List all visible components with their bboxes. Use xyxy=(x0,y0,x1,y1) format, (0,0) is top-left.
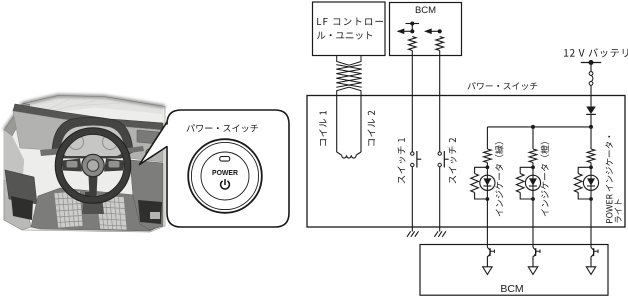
resistor: series, branch indicator LED (amber) DS2 xyxy=(529,149,537,163)
wire: switch SW1 to ground xyxy=(411,167,413,232)
label: LF control unit line1 xyxy=(317,18,383,26)
power symbol icon xyxy=(221,179,230,189)
label: 12 V battery xyxy=(564,48,628,57)
power button indicator pill xyxy=(220,157,230,162)
power switch box outline xyxy=(307,96,625,228)
svg-text:BCM: BCM xyxy=(500,283,523,295)
LED POWER indicator light DS3 xyxy=(590,167,592,199)
switch SW2 contact circles xyxy=(438,152,441,155)
LF control unit box U1 xyxy=(313,2,386,56)
transistor Q1 (BCM output driver) xyxy=(483,247,495,274)
label: switch 2 xyxy=(449,138,457,183)
spring / cable from LF unit to coil xyxy=(336,56,361,96)
wire: branch at x=533 from bus xyxy=(532,127,534,149)
ground (chassis) G2 xyxy=(434,231,446,237)
power button outer ring xyxy=(188,139,262,213)
svg-text:BCM: BCM xyxy=(415,5,436,16)
wire: coil 2 lead xyxy=(360,96,362,153)
wire battery to fuse xyxy=(590,63,592,72)
transistor Q3 (BCM output driver) xyxy=(586,247,598,274)
wire: BCM pullup 1 to switch 1 xyxy=(411,51,413,153)
BCM bottom box U3 xyxy=(420,245,608,296)
wire: switch SW2 to ground xyxy=(439,167,441,232)
label: power switch (bubble) xyxy=(187,124,258,132)
wire diode to bus xyxy=(590,114,592,127)
fuse F1 xyxy=(589,72,593,86)
wire: coil 1 lead xyxy=(336,96,338,153)
power button inner ring xyxy=(201,152,249,200)
wire: branch indicator LED (green) DS1 to BCM output xyxy=(486,199,488,247)
battery supply bar xyxy=(581,62,601,64)
junction dot parallel bottom xyxy=(531,197,535,201)
svg-text:POWER: POWER xyxy=(212,170,238,177)
label: coil 1 xyxy=(319,111,327,146)
label: indicator (green) xyxy=(495,142,504,216)
power button middle ring xyxy=(191,142,258,209)
resistor: BCM pullup 2 xyxy=(436,37,444,51)
LED indicator LED (amber) DS2 xyxy=(532,167,534,199)
coil L1 (antenna coil) xyxy=(337,152,361,158)
junction dot parallel bottom xyxy=(589,197,593,201)
resistor: series, branch POWER indicator light DS3 xyxy=(587,149,595,163)
label: coil 2 xyxy=(367,111,375,146)
resistor: parallel, branch indicator LED (amber) DS2 xyxy=(520,167,533,173)
callout bubble xyxy=(140,110,290,227)
wire: branch indicator LED (amber) DS2 to BCM output xyxy=(532,199,534,247)
junction dot parallel bottom xyxy=(486,197,490,201)
wire pullup1 top dot to arrow node xyxy=(411,24,413,32)
label: switch 1 xyxy=(397,138,405,183)
signal arrow 1 (to BCM) xyxy=(403,30,413,32)
car interior illustration xyxy=(4,96,165,233)
wire: branch at x=487.4 from bus xyxy=(486,127,488,149)
junction dot bus/branch 2 xyxy=(531,125,535,129)
label: POWER indicator light line1 xyxy=(605,136,612,223)
resistor: parallel, branch POWER indicator light DS3 xyxy=(578,167,591,173)
diode D1 xyxy=(586,107,596,115)
wire fuse to power switch box xyxy=(590,85,592,106)
junction dot parallel top xyxy=(486,165,490,169)
signal arrow 2 (to BCM) xyxy=(430,30,440,32)
transistor Q2 (BCM output driver) xyxy=(528,247,540,274)
wire: branch at x=591 from bus xyxy=(590,127,592,149)
junction dot parallel top xyxy=(589,165,593,169)
resistor: parallel, branch indicator LED (green) DS1 xyxy=(475,167,488,173)
junction dot parallel top xyxy=(531,165,535,169)
label: power switch (schematic) xyxy=(468,82,538,90)
wire: indicator supply bus xyxy=(487,126,591,128)
node dot pullup 1 top xyxy=(410,22,414,26)
LED indicator LED (green) DS1 xyxy=(486,167,488,199)
BCM top box U2 xyxy=(390,3,462,56)
switch SW1 actuator xyxy=(416,151,418,168)
label: LF control unit line2 xyxy=(317,31,372,39)
node dot pullup 2 xyxy=(438,29,442,33)
battery node dot xyxy=(589,60,594,65)
wire: BCM pullup 2 to switch 2 xyxy=(439,51,441,153)
node bar above pullup 1 xyxy=(406,23,420,25)
ground (chassis) G1 xyxy=(407,231,419,237)
switch SW1 contact circles xyxy=(411,152,414,155)
label: indicator (amber) xyxy=(540,142,549,216)
switch SW2 actuator xyxy=(443,151,445,168)
resistor: BCM pullup 1 xyxy=(409,37,417,51)
resistor: series, branch indicator LED (green) DS1 xyxy=(484,149,492,163)
junction dot bus/battery line xyxy=(589,125,593,129)
wire: branch POWER indicator light DS3 to BCM output xyxy=(590,199,592,247)
label: POWER indicator light line2 xyxy=(615,199,622,222)
node dot pullup 1 xyxy=(410,29,414,33)
